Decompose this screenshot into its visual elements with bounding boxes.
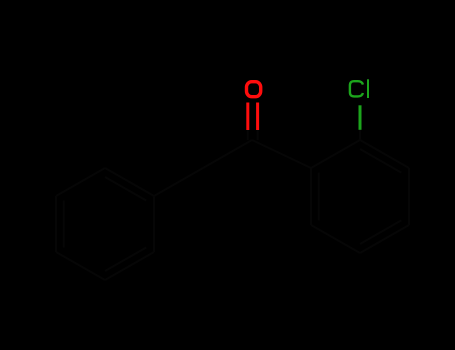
- wire: bond C1 - right ring ipso: [252, 140, 311, 168]
- wire: ring edge B-C bottom-right: [105, 252, 154, 280]
- wire: inner double bond line C6R-C1R: [318, 173, 320, 221]
- chlorine atom label Cl : letter l: [367, 79, 369, 98]
- wire: inner double bond line T-C3R: [360, 149, 401, 173]
- wire: bond CH2 - ring ipso: [154, 168, 203, 196]
- wire: ring edge A-B right vertical: [153, 196, 155, 252]
- left benzene ring (phenyl): [56, 168, 154, 280]
- chlorine bond (green upper part): [359, 105, 362, 130]
- oxygen atom label O: [247, 82, 261, 97]
- wire: bond C1 - CH2: [203, 140, 252, 168]
- wire: inner double bond line C-B: [105, 248, 146, 272]
- wire: ring edge C3R-C4R right vertical: [408, 168, 410, 225]
- wire: ring edge E-F top-left: [56, 168, 105, 196]
- carbonyl C=O red double bond: [248, 103, 258, 131]
- wire: white lower parts of C=O double bond: [247, 130, 249, 141]
- chlorine atom label Cl : letter C: [350, 81, 363, 96]
- wire: ring edge C6R-C1R left vertical: [310, 168, 312, 225]
- wire: ring edge T-C3R top-right: [360, 140, 409, 168]
- wire: white lower part of C-Cl bond: [359, 128, 361, 140]
- wire: ring edge C4R-C5R bottom-right: [360, 225, 409, 253]
- wire: ring edge C1R-T top-left: [311, 140, 360, 168]
- right benzene ring (2-chlorophenyl): [311, 140, 409, 253]
- wire: ring edge D-E left vertical: [55, 196, 57, 252]
- wire: ring edge F-A top-right: [105, 168, 154, 196]
- wire: inner double bond line E-D: [63, 201, 65, 248]
- wire: ring edge C5R-C6R bottom-left: [311, 225, 360, 253]
- chain bonds: [154, 128, 360, 196]
- wire: inner double bond line C4R-C5R: [360, 220, 401, 244]
- wire: ring edge C-D bottom-left: [56, 252, 105, 280]
- wire: inner double bond line F-A: [105, 177, 146, 201]
